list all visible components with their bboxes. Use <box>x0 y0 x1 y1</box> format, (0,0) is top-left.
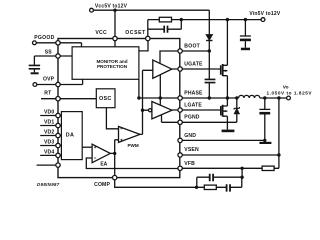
resistor R comp <box>204 185 216 189</box>
pin PGND <box>178 120 182 124</box>
wire spare pin <box>37 164 56 166</box>
IC U1 outline <box>58 39 180 178</box>
inductor L1 <box>239 95 260 98</box>
pin VD0 <box>56 113 60 117</box>
capacitor C comp lower branch <box>216 177 242 187</box>
svg-text:GND: GND <box>184 133 196 139</box>
op-amp EA <box>92 144 110 163</box>
svg-text:OVP: OVP <box>43 77 55 83</box>
junction Vo sense top <box>277 96 280 99</box>
junction comp lower branch <box>195 186 198 189</box>
wire LGATE driver top tie <box>159 98 161 105</box>
pin RT <box>56 97 60 101</box>
terminal Vin <box>261 18 265 22</box>
wire OCSET pin <box>139 20 148 51</box>
wire Vcc to diode <box>208 10 210 34</box>
junction PWM to LGATE driver <box>141 109 144 112</box>
wire PGND <box>162 121 237 123</box>
svg-text:PHASE: PHASE <box>184 90 203 96</box>
pin VD3 <box>56 143 60 147</box>
junction Cout top <box>263 96 266 99</box>
capacitor Cin <box>244 20 246 36</box>
pin OVP <box>56 82 60 86</box>
junction phase drivers <box>159 96 162 99</box>
wire PHASE internal <box>139 97 178 99</box>
wire VD1 <box>40 125 61 127</box>
pin VD2 <box>56 133 60 137</box>
ground Cin <box>241 48 250 51</box>
svg-text:PROTECTION: PROTECTION <box>97 64 128 69</box>
ground Q2 source <box>222 130 235 133</box>
svg-text:VD0: VD0 <box>44 110 54 116</box>
resistor R feedback <box>262 166 274 170</box>
pin SS <box>56 54 60 58</box>
diode D1 bootstrap <box>206 35 213 41</box>
pin VCC <box>113 36 117 40</box>
junction comp node <box>240 176 243 179</box>
terminal PGOOD <box>33 41 37 45</box>
junction Q1 drain <box>226 18 229 21</box>
terminal OVP <box>33 83 37 87</box>
wire BOOT external <box>182 50 209 52</box>
svg-text:Vo: Vo <box>283 84 289 90</box>
label PWM minus input <box>120 128 122 130</box>
block OSC <box>96 89 115 108</box>
wire OSC to PWM <box>106 108 118 129</box>
wire VFB external <box>182 167 279 169</box>
pin VFB <box>178 166 182 170</box>
node Vin rail <box>148 19 261 21</box>
junction VFB comp <box>240 167 243 170</box>
label EA plus input <box>94 146 96 148</box>
op-amp PWM comparator <box>119 126 141 142</box>
junction Cin <box>244 18 247 21</box>
label EA minus input <box>94 157 96 159</box>
capacitor Cocset branch <box>148 20 182 30</box>
ground Cout <box>259 142 271 144</box>
capacitor Cout <box>264 98 266 109</box>
svg-text:Vcc5V to12V: Vcc5V to12V <box>95 3 128 9</box>
wire EA inverting loop <box>86 158 178 169</box>
svg-text:COMP: COMP <box>94 182 110 188</box>
node Vcc rail <box>94 9 210 11</box>
capacitor C comp upper branch <box>197 177 242 187</box>
svg-text:RT: RT <box>44 90 52 96</box>
transistor Q2 low-side MOSFET <box>220 106 222 115</box>
svg-text:VD4: VD4 <box>44 150 54 156</box>
wire PWM output <box>140 70 153 134</box>
junction EA out COMP <box>113 152 116 155</box>
pin PGOOD <box>56 41 60 45</box>
wire OVP <box>37 79 83 84</box>
ground Css <box>31 72 39 74</box>
svg-text:BOOT: BOOT <box>184 44 200 50</box>
wire output <box>260 97 287 99</box>
pin VSEN <box>178 153 182 157</box>
svg-text:VCC: VCC <box>95 30 107 36</box>
block MONITOR and PROTECTION <box>72 47 139 80</box>
capacitor Cboot <box>208 51 210 79</box>
pin OCSET <box>146 36 150 40</box>
wire UGATE driver bottom tie <box>159 75 161 98</box>
pin BOOT <box>178 49 182 53</box>
wire LGATE external <box>172 109 221 111</box>
wire EA output <box>110 140 118 176</box>
junction Cboot phase <box>208 96 211 99</box>
op-amp UGATE driver <box>153 60 172 78</box>
svg-text:PWM: PWM <box>127 143 138 148</box>
bubble LGATE driver input <box>149 109 152 112</box>
svg-text:OSC: OSC <box>99 96 112 102</box>
wire COMP drop <box>115 180 205 188</box>
svg-text:PGND: PGND <box>184 115 199 121</box>
wire RT <box>41 98 96 100</box>
resistor Rocset <box>159 17 171 22</box>
svg-text:PGOOD: PGOOD <box>34 35 54 41</box>
op-amp LGATE driver <box>152 102 172 119</box>
junction BOOT diode <box>208 49 211 52</box>
svg-text:VFB: VFB <box>184 161 195 167</box>
pin VD4 <box>56 153 60 157</box>
svg-text:VD3: VD3 <box>44 140 54 146</box>
wire UGATE external <box>172 68 221 70</box>
wire GND <box>182 139 265 141</box>
pin VD1 <box>56 123 60 127</box>
wire VD4 <box>40 154 61 156</box>
wire MP box to phase <box>138 79 140 98</box>
wire BOOT internal to driver <box>160 51 178 63</box>
pin COMP <box>113 175 117 179</box>
junction VSEN <box>277 153 280 156</box>
svg-text:1.050V to 1.825V: 1.050V to 1.825V <box>267 91 313 96</box>
wire VSEN <box>182 154 279 156</box>
wire PHASE external <box>182 97 238 99</box>
pin GND <box>178 138 182 142</box>
svg-text:DA: DA <box>66 132 75 138</box>
svg-text:EA: EA <box>100 161 107 167</box>
wire VCC pin <box>114 10 116 47</box>
wire PGOOD <box>36 43 81 47</box>
wire Vo sense vertical <box>278 98 280 168</box>
wire VD3 <box>40 145 61 147</box>
wire SS <box>34 55 72 57</box>
wire VD0 <box>40 115 61 117</box>
wire LGATE driver bottom tie <box>161 115 163 123</box>
junction GND Cout <box>263 139 266 142</box>
junction RC right <box>180 18 183 21</box>
junction VCC rail <box>113 9 116 12</box>
transistor Q1 high-side MOSFET <box>220 65 222 74</box>
pin PHASE <box>178 96 182 100</box>
svg-text:D98IN987: D98IN987 <box>37 182 60 187</box>
junction phase Q1 <box>226 96 229 99</box>
svg-text:VD1: VD1 <box>44 120 54 126</box>
svg-text:OCSET: OCSET <box>125 30 146 36</box>
terminal Vcc <box>90 8 94 12</box>
svg-text:SS: SS <box>45 49 53 55</box>
pin spare <box>56 163 60 167</box>
capacitor Css <box>33 56 35 65</box>
svg-text:VSEN: VSEN <box>184 147 199 153</box>
block DA <box>61 112 82 160</box>
wire DA to EA <box>82 146 92 148</box>
svg-text:VD2: VD2 <box>44 130 54 136</box>
svg-text:UGATE: UGATE <box>184 62 203 68</box>
pin UGATE <box>178 67 182 71</box>
pin LGATE <box>178 108 182 112</box>
label PWM plus input <box>120 139 122 141</box>
svg-text:Vin5V to12V: Vin5V to12V <box>249 11 280 17</box>
wire VD2 <box>40 135 61 137</box>
wire comp node vertical <box>241 168 243 177</box>
junction phase D2 <box>235 96 238 99</box>
diode D2 schottky <box>236 98 238 122</box>
terminal Vo <box>287 96 291 100</box>
junction phase internal left <box>137 96 140 99</box>
svg-text:LGATE: LGATE <box>184 102 202 108</box>
